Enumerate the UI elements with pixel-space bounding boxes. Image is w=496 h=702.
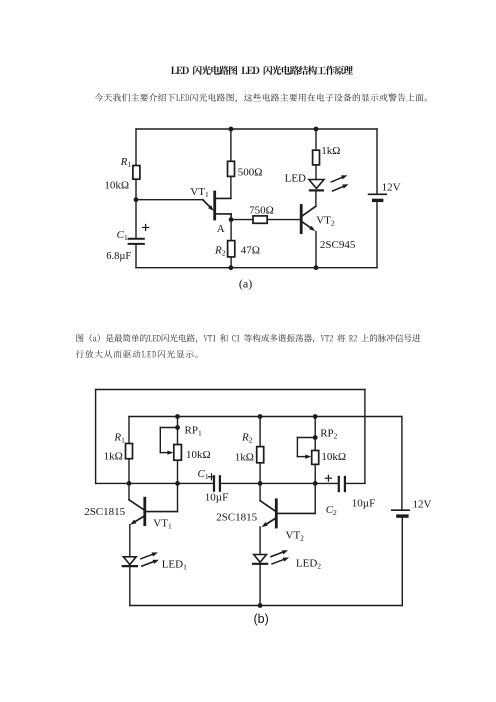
document title bbox=[0, 0, 496, 90]
LED1 diode bbox=[123, 552, 187, 571]
battery 12V bbox=[369, 181, 401, 200]
middle paragraph bbox=[0, 0, 496, 365]
svg-text:750Ω: 750Ω bbox=[249, 205, 274, 217]
node junction R1/C1/base bbox=[134, 197, 139, 202]
svg-text:R1: R1 bbox=[113, 431, 125, 444]
resistor R1 bbox=[104, 156, 139, 191]
node RP2 bottom bbox=[313, 481, 318, 486]
svg-text:10µF: 10µF bbox=[205, 491, 228, 503]
resistor R2 47ohm bbox=[214, 241, 260, 258]
svg-text:R2: R2 bbox=[241, 431, 253, 444]
wire R2 branch lower bbox=[259, 463, 261, 484]
resistor R2 1kohm bbox=[235, 431, 264, 463]
svg-text:R1: R1 bbox=[120, 156, 132, 169]
wire left edge mid bbox=[135, 179, 137, 238]
wire outer top rail bbox=[96, 389, 365, 391]
svg-text:10kΩ: 10kΩ bbox=[104, 179, 129, 191]
wire R1 branch upper bbox=[128, 417, 130, 444]
wire bottom rail bbox=[136, 267, 377, 269]
wire R2 top bbox=[230, 220, 232, 241]
wire VT1 emitter down bbox=[129, 525, 131, 557]
wire RP1 branch lower bbox=[177, 460, 179, 483]
node A bbox=[217, 217, 234, 235]
wire VT2 collector up bbox=[315, 191, 317, 206]
wire left edge upper bbox=[135, 129, 137, 166]
capacitor C2 10uF bbox=[325, 475, 375, 517]
wire VT2 emitter down bbox=[259, 527, 261, 555]
wire R2 bottom bbox=[230, 257, 232, 268]
wire top rail bbox=[136, 128, 377, 130]
wire R2 branch upper bbox=[259, 417, 261, 447]
svg-text:1kΩ: 1kΩ bbox=[104, 451, 123, 463]
svg-text:C1: C1 bbox=[198, 468, 209, 481]
potentiometer RP1 10kohm bbox=[160, 424, 210, 460]
svg-text:C1: C1 bbox=[117, 229, 128, 242]
resistor 1kohm bbox=[313, 145, 341, 165]
wire outer left edge bbox=[95, 390, 97, 484]
battery 12V bbox=[392, 499, 432, 516]
svg-text:C2: C2 bbox=[326, 504, 337, 517]
svg-text:12V: 12V bbox=[382, 181, 401, 193]
resistor 500ohm bbox=[228, 161, 263, 178]
node LED2 bottom rail bbox=[258, 603, 263, 608]
wire right edge upper bbox=[376, 129, 378, 194]
svg-text:12V: 12V bbox=[413, 499, 432, 511]
node VT2 emitter bottom rail bbox=[314, 265, 319, 270]
svg-text:VT1: VT1 bbox=[190, 186, 209, 199]
svg-text:10kΩ: 10kΩ bbox=[321, 451, 346, 463]
node R2 bottom bbox=[258, 481, 263, 486]
svg-text:2SC1815: 2SC1815 bbox=[216, 511, 257, 523]
node 500ohm top bbox=[229, 127, 234, 132]
wire C2 to outer drop bbox=[345, 482, 365, 484]
svg-text:VT2: VT2 bbox=[286, 529, 305, 542]
node RP2 wiper tap bbox=[313, 435, 318, 440]
svg-text:VT1: VT1 bbox=[153, 517, 172, 530]
svg-text:R2: R2 bbox=[214, 245, 226, 258]
wire inner supply rail bbox=[129, 416, 402, 418]
LED light arrows bbox=[331, 175, 348, 191]
svg-text:10kΩ: 10kΩ bbox=[186, 449, 211, 461]
node RP1 bottom bbox=[175, 481, 180, 486]
resistor R1 1kohm bbox=[104, 431, 133, 462]
svg-text:500Ω: 500Ω bbox=[238, 166, 263, 178]
svg-text:(b): (b) bbox=[254, 612, 269, 626]
svg-text:2SC1815: 2SC1815 bbox=[84, 506, 125, 518]
node RP2 top bbox=[313, 414, 318, 419]
svg-text:RP1: RP1 bbox=[185, 424, 202, 437]
node R2 bottom rail bbox=[229, 265, 234, 270]
wire battery feed down bbox=[401, 417, 403, 511]
resistor 750ohm bbox=[249, 205, 274, 224]
transistor VT2 2SC1815 bbox=[216, 483, 315, 542]
capacitor C1 10uF bbox=[198, 468, 229, 503]
wire RP1 branch upper bbox=[177, 417, 179, 445]
wire RP2 branch upper bbox=[314, 417, 316, 451]
svg-text:(a): (a) bbox=[239, 276, 252, 290]
wire battery to bottom rail bbox=[401, 516, 403, 605]
svg-text:1kΩ: 1kΩ bbox=[321, 145, 340, 157]
wire R1 branch lower bbox=[128, 459, 130, 484]
svg-text:LED2: LED2 bbox=[296, 558, 321, 571]
wire left rail segment bbox=[96, 482, 214, 484]
wire VT2 emitter down bbox=[315, 232, 317, 268]
wire LED1 to bottom rail bbox=[129, 566, 131, 605]
transistor VT1 bbox=[136, 186, 215, 219]
wire collector VT1 bbox=[216, 197, 231, 199]
svg-text:VT2: VT2 bbox=[316, 214, 335, 227]
wire LED2 to bottom rail bbox=[259, 564, 261, 606]
node 1kohm top rail bbox=[314, 127, 319, 132]
intro paragraph bbox=[0, 0, 496, 110]
wire bottom rail bbox=[130, 605, 403, 607]
LED diode bbox=[285, 165, 324, 191]
potentiometer RP2 10kohm bbox=[297, 427, 346, 464]
wire C1 to bottom rail bbox=[135, 244, 137, 268]
wire middle rail segment bbox=[220, 482, 339, 484]
wire 750ohm to VT2 base bbox=[268, 219, 300, 221]
wire right edge lower bbox=[376, 200, 378, 267]
wire 500ohm branch upper bbox=[230, 129, 232, 161]
node RP1 wiper tap bbox=[175, 425, 180, 430]
svg-text:RP2: RP2 bbox=[320, 427, 337, 440]
wire 500ohm to collector bbox=[230, 176, 232, 198]
wire emitter VT1 bbox=[216, 214, 232, 220]
svg-text:LED: LED bbox=[285, 172, 306, 184]
svg-text:10µF: 10µF bbox=[352, 498, 375, 510]
wire outer right drop to C2 bbox=[364, 390, 366, 484]
svg-text:6.8µF: 6.8µF bbox=[106, 251, 131, 262]
wire A to 750ohm bbox=[231, 219, 253, 221]
svg-text:A: A bbox=[217, 223, 225, 235]
node R1 bottom bbox=[127, 481, 132, 486]
capacitor C1 6.8uF bbox=[106, 225, 148, 263]
svg-text:1kΩ: 1kΩ bbox=[235, 452, 254, 464]
node R2 top bbox=[258, 414, 263, 419]
svg-text:LED1: LED1 bbox=[162, 558, 187, 571]
node RP1 top bbox=[175, 414, 180, 419]
transistor VT2 2SC945 bbox=[301, 206, 356, 252]
wire RP2 branch lower bbox=[314, 465, 316, 484]
transistor VT1 2SC1815 bbox=[84, 483, 177, 530]
svg-text:47Ω: 47Ω bbox=[241, 245, 260, 257]
svg-text:2SC945: 2SC945 bbox=[320, 239, 356, 251]
wire 1kohm top bbox=[315, 129, 317, 150]
LED2 diode bbox=[253, 550, 321, 570]
